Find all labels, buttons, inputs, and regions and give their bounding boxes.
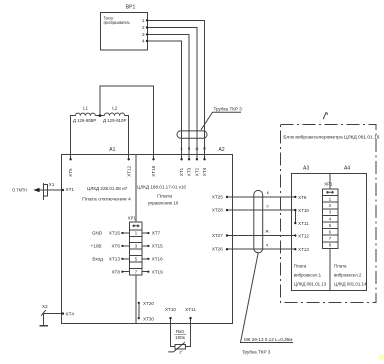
svg-text:ХТ6: ХТ6 xyxy=(111,244,120,249)
svg-text:ХТ25: ХТ25 xyxy=(212,194,223,199)
svg-text:ХТ3: ХТ3 xyxy=(187,167,192,176)
pin dot XT26 xyxy=(226,248,228,250)
pin dot XT30 xyxy=(138,317,140,319)
node L1-L2 xyxy=(99,114,102,117)
pin dot XT10 vibro xyxy=(294,209,296,211)
pin dot XP1 R5 xyxy=(147,258,149,260)
svg-text:ЦЛКД 081.01.13: ЦЛКД 081.01.13 xyxy=(294,282,327,287)
pin dot XT11 bottom xyxy=(189,317,191,319)
svg-text:Плата: Плата xyxy=(294,264,307,269)
pin dot XT25 xyxy=(226,196,228,198)
pin dot XT12 xyxy=(128,158,130,160)
svg-text:Х1: Х1 xyxy=(49,182,55,187)
svg-text:L2: L2 xyxy=(112,106,118,111)
svg-text:3: 3 xyxy=(142,32,145,37)
XP1 row3 stubs xyxy=(122,245,148,247)
wire XT10 to thermistor xyxy=(171,318,176,346)
wire BP1 pin4 to XT4 xyxy=(147,41,182,159)
pin dot XT13 vibro xyxy=(294,248,296,250)
svg-text:ХТ12: ХТ12 xyxy=(126,165,131,176)
wire XT11 to thermistor xyxy=(185,318,190,346)
svg-text:ХТ12: ХТ12 xyxy=(298,233,309,238)
svg-text:Трубка ТКР 3: Трубка ТКР 3 xyxy=(214,107,243,112)
svg-text:с: с xyxy=(267,203,270,208)
svg-text:ХТ4: ХТ4 xyxy=(66,311,75,316)
svg-text:ЦЛКД 228.01.08 и7: ЦЛКД 228.01.08 и7 xyxy=(87,186,128,191)
ground xyxy=(39,325,48,327)
pin dot XP1 L7 xyxy=(121,271,123,273)
pin dot XP1 R3 xyxy=(147,245,149,247)
svg-text:А1: А1 xyxy=(109,147,115,153)
svg-text:ХР1: ХР1 xyxy=(128,216,137,221)
wire BP1 pin2 to XT2 xyxy=(147,28,197,160)
pin dot XT2 top xyxy=(196,158,198,160)
svg-text:100к: 100к xyxy=(175,335,186,340)
wire L2 right to XT12 xyxy=(125,116,129,160)
svg-text:ХТ11: ХТ11 xyxy=(185,307,196,312)
svg-text:1: 1 xyxy=(142,18,145,23)
pin dot BP1-1 xyxy=(146,19,148,21)
fraction bar Rk0/100k xyxy=(175,333,186,335)
svg-text:Х2: Х2 xyxy=(42,304,48,309)
svg-text:L1: L1 xyxy=(83,106,89,111)
XP1 row1 stubs xyxy=(122,232,148,234)
svg-text:ХТ15: ХТ15 xyxy=(152,244,163,249)
connector XP1 left stack xyxy=(130,222,143,275)
pin dot XP1 R7 xyxy=(147,271,149,273)
svg-text:ХТ1: ХТ1 xyxy=(179,167,184,176)
svg-text:ХТ13: ХТ13 xyxy=(298,247,309,252)
svg-text:ХТ10: ХТ10 xyxy=(298,208,309,213)
svg-text:ХТ28: ХТ28 xyxy=(212,208,223,213)
connector X2 symbol xyxy=(41,310,45,316)
svg-text:О ТМТН: О ТМТН xyxy=(12,187,27,192)
pin dot XT4 left xyxy=(62,312,64,314)
main unit box xyxy=(62,155,233,324)
svg-text:Блок виброакселерометра ЦЛКД 0: Блок виброакселерометра ЦЛКД 081.01.16 xyxy=(283,134,379,140)
svg-text:Вход: Вход xyxy=(92,256,103,261)
svg-text:ХТ10: ХТ10 xyxy=(165,307,176,312)
arrow to TMTN xyxy=(33,188,39,193)
svg-text:6: 6 xyxy=(329,230,332,235)
svg-text:3: 3 xyxy=(329,210,332,215)
svg-text:ХТ9: ХТ9 xyxy=(298,195,307,200)
wire BP1 pin1 to XT1 xyxy=(147,20,205,159)
wire XT25 to XT9 xyxy=(227,196,295,198)
pin dot XT3 top xyxy=(188,158,190,160)
wire BP1 pin3 to XT3 xyxy=(147,34,189,159)
svg-text:ХТ30: ХТ30 xyxy=(143,316,154,321)
pin dot XT28 xyxy=(226,209,228,211)
svg-text:ХР1: ХР1 xyxy=(324,182,333,187)
svg-text:5: 5 xyxy=(135,257,138,262)
board divider A1/A2 xyxy=(135,155,137,222)
svg-text:ХТ1: ХТ1 xyxy=(66,187,75,192)
pin dot XP1 R1 xyxy=(147,232,149,234)
svg-text:б: б xyxy=(203,146,206,151)
svg-text:3: 3 xyxy=(135,244,138,249)
cable tube marker right xyxy=(254,190,263,252)
pin dot XT27 xyxy=(226,234,228,236)
vibro block inner box A3/A4 xyxy=(292,174,367,291)
svg-text:ХТ5: ХТ5 xyxy=(68,168,73,177)
svg-text:ХТ20: ХТ20 xyxy=(143,301,154,306)
wire XT28 to XT10 xyxy=(227,209,295,211)
vibro block divider A3/A4 xyxy=(329,173,331,290)
XP1 row7 stubs xyxy=(122,271,148,273)
svg-text:2: 2 xyxy=(142,25,145,30)
svg-text:ХТ13: ХТ13 xyxy=(109,256,120,261)
svg-text:ХТ7: ХТ7 xyxy=(152,231,161,236)
svg-text:ХТ15: ХТ15 xyxy=(109,231,120,236)
svg-text:ж: ж xyxy=(266,229,270,234)
svg-text:ХТ27: ХТ27 xyxy=(212,233,223,238)
svg-text:1: 1 xyxy=(329,197,332,202)
wire L1-L2 link xyxy=(95,115,104,117)
screen symbol xyxy=(323,112,327,119)
svg-text:А3: А3 xyxy=(303,165,309,171)
wire X1 to XT1 xyxy=(40,189,63,191)
svg-text:Плата: Плата xyxy=(334,264,347,269)
svg-text:ж: ж xyxy=(195,146,199,151)
svg-text:виброаксел.1: виброаксел.1 xyxy=(294,273,322,278)
pin dot XT9 xyxy=(294,196,296,198)
svg-text:А2: А2 xyxy=(219,147,225,153)
svg-text:Д 126-90ВР: Д 126-90ВР xyxy=(73,118,96,123)
svg-text:виброаксел.2: виброаксел.2 xyxy=(334,273,362,278)
svg-text:+10В: +10В xyxy=(91,244,102,249)
svg-text:GND: GND xyxy=(92,231,103,236)
svg-text:МК 26-13 0,12 L=0,35м: МК 26-13 0,12 L=0,35м xyxy=(244,337,292,342)
svg-text:ХТ8: ХТ8 xyxy=(111,269,120,274)
jumper XT10-XT11 right box xyxy=(294,210,296,223)
pin dot XT1 top xyxy=(180,158,182,160)
svg-text:4: 4 xyxy=(329,216,332,221)
jumper XT20-XT30 xyxy=(138,303,140,318)
pin dot BP1-4 xyxy=(146,40,148,42)
svg-text:Плата отключения 4: Плата отключения 4 xyxy=(82,197,131,202)
svg-text:преобразователь: преобразователь xyxy=(104,20,131,25)
pin dot XP1 L1 xyxy=(121,232,123,234)
cable tube marker top xyxy=(177,131,207,138)
pin dot XT12 vibro xyxy=(294,234,296,236)
svg-text:Д 129-910Р: Д 129-910Р xyxy=(103,118,126,123)
pin dot XT20 xyxy=(138,302,140,304)
svg-text:ч: ч xyxy=(266,242,269,247)
pin dot XT4 top xyxy=(203,158,205,160)
strain transducer BP1 box xyxy=(101,13,148,51)
vibro block dashed screen box xyxy=(281,125,377,303)
XP1 top cell arrow xyxy=(133,225,140,227)
pin dot XT1 left xyxy=(62,189,64,191)
wire XT26 to XT13 xyxy=(227,248,295,250)
wire below XP1 to bottom edge xyxy=(135,275,137,323)
leader to tube label bottom xyxy=(241,253,294,343)
inductor L1 xyxy=(75,113,95,115)
svg-text:ХТ4: ХТ4 xyxy=(202,167,207,176)
pin dot BP1-2 xyxy=(146,26,148,28)
leader to tube label top xyxy=(201,112,241,130)
svg-text:ВР1: ВР1 xyxy=(126,5,136,11)
svg-text:к: к xyxy=(267,190,270,195)
svg-text:2: 2 xyxy=(329,203,332,208)
connector X1 symbol xyxy=(44,183,48,200)
svg-text:4: 4 xyxy=(142,39,145,44)
pin dot XP1 L5 xyxy=(121,258,123,260)
svg-text:ХТ11: ХТ11 xyxy=(298,221,309,226)
svg-text:ХТ18: ХТ18 xyxy=(151,165,156,176)
wire XT27 to XT12 xyxy=(227,235,295,237)
wire X2 to XT4 xyxy=(44,314,63,326)
svg-text:1: 1 xyxy=(135,231,138,236)
svg-text:управления 10: управления 10 xyxy=(148,201,179,206)
pin dot XT10 bottom xyxy=(169,317,171,319)
svg-text:Плата: Плата xyxy=(157,194,172,199)
pin dot XT18 xyxy=(152,158,154,160)
svg-text:ХТ16: ХТ16 xyxy=(152,256,163,261)
svg-text:Rк0: Rк0 xyxy=(176,329,184,334)
svg-text:с: с xyxy=(180,146,183,151)
svg-text:ЦЛКД 188.01.17-01 v10: ЦЛКД 188.01.17-01 v10 xyxy=(137,184,187,189)
svg-text:7: 7 xyxy=(135,269,138,274)
thermistor Rk0 diagonal xyxy=(168,342,185,352)
svg-text:8: 8 xyxy=(329,243,332,248)
svg-text:ХТ19: ХТ19 xyxy=(152,269,163,274)
svg-text:5: 5 xyxy=(329,223,332,228)
XP1 row5 stubs xyxy=(122,258,148,260)
svg-text:ЦЛКД 081.01.14: ЦЛКД 081.01.14 xyxy=(334,282,367,287)
connector XP1 right stack xyxy=(323,189,339,248)
pin dot XP1 L3 xyxy=(121,245,123,247)
wire L1 left to XT5 xyxy=(71,116,76,160)
wire junction to XT18 xyxy=(100,86,154,160)
XP1 right top cell arrow xyxy=(326,191,333,193)
svg-text:Трубка ТКР 3: Трубка ТКР 3 xyxy=(242,350,271,355)
svg-text:ч: ч xyxy=(188,146,191,151)
inductor L2 xyxy=(104,113,124,116)
pin dot BP1-3 xyxy=(146,33,148,35)
svg-text:А4: А4 xyxy=(344,165,350,171)
svg-text:7: 7 xyxy=(329,236,332,241)
pin dot XT11 vibro xyxy=(294,222,296,224)
thermistor Rk0 body xyxy=(175,344,185,349)
svg-text:ХТ2: ХТ2 xyxy=(195,167,200,176)
svg-text:ХТ26: ХТ26 xyxy=(212,247,223,252)
pin dot XT5 xyxy=(69,158,71,160)
svg-text:t°: t° xyxy=(180,350,183,355)
